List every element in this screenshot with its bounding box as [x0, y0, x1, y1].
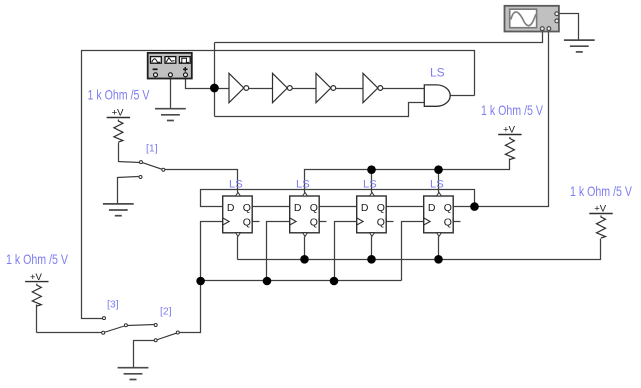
svg-text:LS: LS [363, 179, 377, 191]
svg-text:1 k Ohm /5 V: 1 k Ohm /5 V [88, 87, 151, 102]
svg-text:[1]: [1] [146, 143, 158, 155]
svg-text:LS: LS [296, 179, 310, 191]
svg-text:LS: LS [430, 179, 444, 191]
svg-text:1 k Ohm /5 V: 1 k Ohm /5 V [6, 252, 69, 267]
svg-text:[3]: [3] [107, 298, 119, 310]
svg-text:LS: LS [430, 66, 445, 80]
svg-text:[2]: [2] [160, 305, 172, 317]
svg-text:1 k Ohm /5 V: 1 k Ohm /5 V [570, 184, 633, 199]
svg-text:LS: LS [229, 179, 243, 191]
svg-text:1 k Ohm /5 V: 1 k Ohm /5 V [481, 103, 544, 118]
